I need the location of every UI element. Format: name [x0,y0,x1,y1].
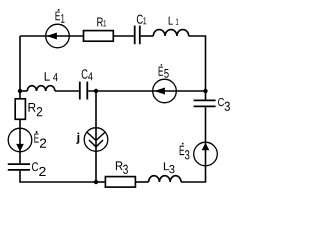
resistor R1 [84,31,114,42]
wire L1 to top-right corner down to node D [189,36,206,100]
wire R3 to L3 [135,181,148,183]
label C2 [32,162,46,176]
wire node C down through J to node E [95,91,97,182]
label J [76,133,79,144]
label E1 [56,9,65,23]
wire L4 to C4 [55,90,79,92]
label C1 [137,15,147,25]
node C junction [94,89,98,93]
wire C4 to node D through E5 [88,90,205,92]
wire R1 to C1 [114,35,134,37]
voltage source E5 [153,79,177,103]
label E2 [34,131,46,148]
label L3 [164,162,175,173]
inductor L4 [27,86,55,91]
label L1 [169,17,179,25]
voltage source E1 [46,24,70,48]
wire L3 to bottom-right corner up to C3 [181,107,206,182]
label R1 [97,18,106,27]
inductor L3 [149,176,181,182]
resistor R3 [105,177,135,188]
label E5 [159,64,169,78]
wire R2 to C2 through E2 [19,119,21,163]
wire node E to R3 [96,181,105,183]
label C4 [82,69,93,80]
wire left column top [19,36,21,99]
node D junction [203,89,207,93]
capacitor C3 [194,100,216,106]
wire C1 to L1 [141,35,154,37]
current source J [84,128,108,152]
capacitor C4 [80,82,88,100]
label L4 [45,72,58,81]
node B junction [18,89,22,93]
voltage source E3 [194,142,218,166]
label E3 [180,143,190,160]
resistor R2 [15,99,25,120]
node E junction [94,180,98,184]
label R3 [116,161,128,173]
capacitor C1 [135,26,140,45]
label R2 [29,103,43,116]
capacitor C2 [8,164,30,170]
wire top branch left through E1 [20,35,83,37]
voltage source E2 [8,128,32,152]
wire C2 down and right to node E [20,171,96,182]
inductor L1 [153,30,188,36]
wire node B to L4 [20,90,27,92]
label C3 [218,98,230,111]
